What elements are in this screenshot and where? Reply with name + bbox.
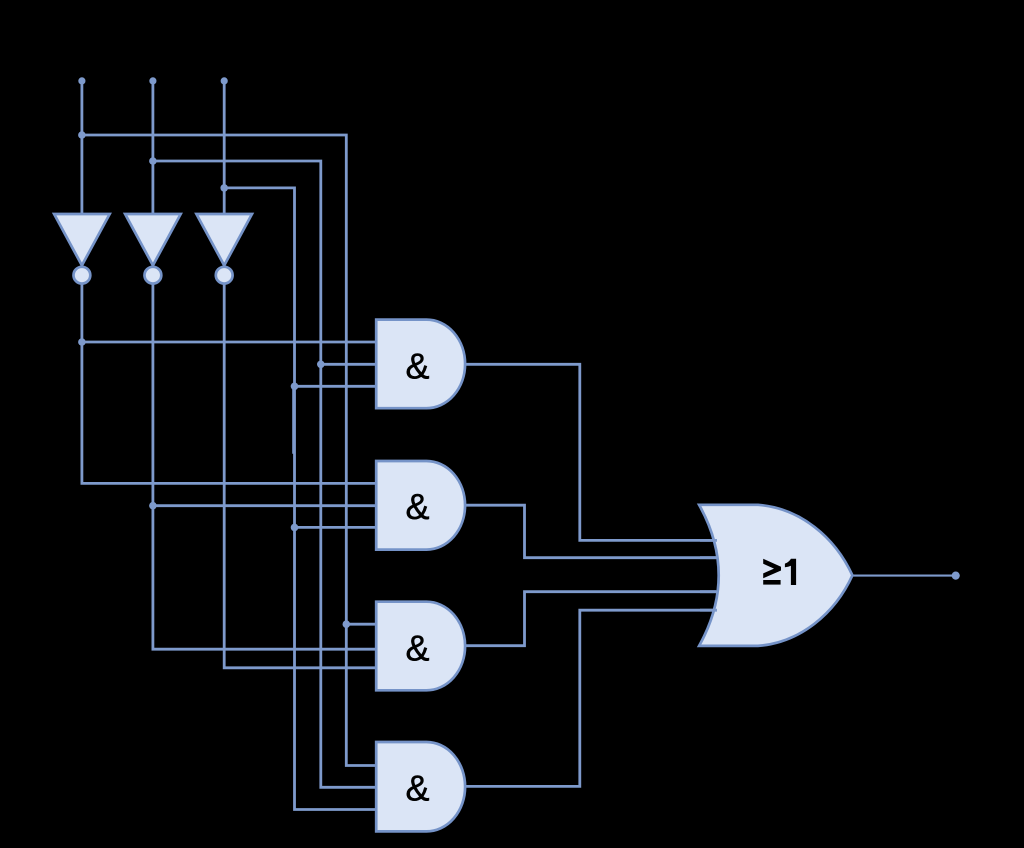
node junction A tap	[78, 131, 86, 139]
wire inverter A output to AND2	[82, 285, 376, 484]
wire A tap to vertical bus A	[82, 135, 376, 766]
node junction bus C / AND1	[291, 383, 299, 391]
wire bus C doubled segment	[292, 387, 295, 454]
label OR U8 ">=1" greater-equal chevron	[763, 559, 781, 579]
wire C tap to vertical bus C	[224, 188, 376, 810]
wire inverter C output to AND3 input 3	[224, 285, 376, 668]
wire OR input stub 1 overlay	[700, 539, 717, 542]
node input C terminal	[221, 77, 228, 84]
node junction inverter B / AND2	[149, 502, 157, 510]
node junction inverter A / AND1	[78, 338, 86, 346]
node junction bus B / AND1	[317, 361, 325, 369]
node output terminal	[952, 572, 960, 580]
AND gate U7	[376, 742, 465, 831]
wire AND3 output to OR input 3	[465, 592, 716, 646]
wire OR input stub 2 overlay	[700, 556, 717, 559]
inverter U2 (NOT B)	[125, 214, 181, 265]
svg-text:&: &	[405, 767, 429, 808]
node junction bus C / AND2	[291, 524, 299, 532]
wire input C vertical	[223, 81, 226, 215]
node junction C tap	[220, 184, 228, 192]
inverter U1 (NOT A)	[54, 214, 110, 265]
wire AND1 output to OR input 1	[465, 364, 716, 540]
wire B tap to vertical bus B	[153, 161, 376, 787]
wire AND4 output to OR input 4	[465, 610, 716, 786]
wire inverter B output to AND3	[153, 285, 376, 650]
inverter U3 (NOT C)	[196, 214, 252, 265]
wire inverter B tap to AND2 input 2	[153, 504, 376, 507]
node input B terminal	[149, 77, 156, 84]
node junction bus A / AND3	[343, 620, 351, 628]
node junction B tap	[149, 157, 157, 165]
wire inverter A tap to AND1 input 1	[82, 341, 376, 344]
svg-text:&: &	[405, 345, 429, 386]
wire OR output	[852, 575, 955, 577]
label OR U8 ">=1" greater-equal bar	[763, 580, 780, 585]
AND gate U6	[376, 602, 465, 691]
svg-text:&: &	[405, 628, 429, 669]
svg-text:&: &	[405, 486, 429, 527]
node input A terminal	[78, 77, 85, 84]
wire bus C tap to AND2 input 3	[295, 526, 377, 529]
wire input B vertical	[151, 81, 154, 215]
AND gate U5	[376, 461, 465, 550]
wire input A vertical	[81, 81, 84, 215]
wire OR input stub 4 overlay	[700, 609, 717, 612]
wire bus C tap to AND1 input 3	[295, 385, 377, 388]
AND gate U4	[376, 320, 465, 409]
label OR U8 ">=1" digit 1	[785, 559, 796, 585]
wire AND2 output to OR input 2	[465, 505, 716, 558]
wire bus A tap to AND3 input 1	[346, 623, 376, 626]
wire OR input stub 3 overlay	[700, 590, 717, 593]
OR gate U8	[699, 505, 852, 646]
wire bus B tap to AND1 input 2	[321, 363, 376, 366]
